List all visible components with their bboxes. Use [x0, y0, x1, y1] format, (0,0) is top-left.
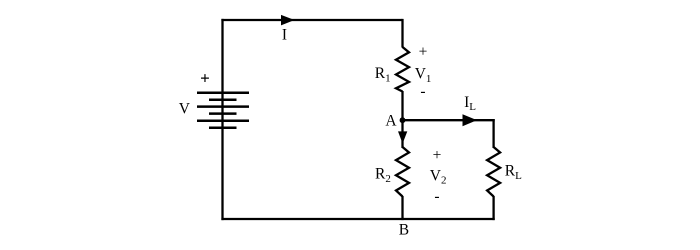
svg-text:-: - [420, 83, 425, 100]
wire: from R2 bottom down to node B on bottom wire [401, 196, 403, 220]
arrow: load current IL on horizontal wire [463, 114, 478, 126]
resistor R2 (zigzag) [396, 147, 409, 197]
wire: R1 branch vertical from top wire down to R1 [401, 19, 403, 48]
wire: bottom horizontal return from B to battery - terminal and RL bottom [221, 218, 494, 220]
wire: horizontal from node A to RL branch [403, 119, 495, 121]
svg-text:R1: R1 [375, 65, 391, 84]
svg-text:+: + [200, 69, 210, 88]
wire: top horizontal from battery + terminal to R1 branch [221, 19, 402, 21]
svg-text:+: + [433, 147, 442, 164]
svg-text:RL: RL [505, 163, 522, 182]
node A (junction dot) [400, 117, 406, 123]
arrow: current into R2 (downward) below node A [398, 131, 407, 143]
svg-text:+: + [419, 44, 428, 61]
wire: from RL bottom down to bottom wire [492, 196, 494, 220]
wire: RL branch vertical from corner down to RL [492, 119, 494, 148]
wire: from R1 bottom down to node A [401, 91, 403, 121]
svg-text:IL: IL [464, 94, 476, 113]
wire: left vertical from top corner down through battery to bottom-left corner [221, 19, 223, 220]
wire: from node A down toward R2 [401, 120, 403, 148]
svg-text:-: - [434, 188, 439, 205]
svg-text:V2: V2 [430, 168, 447, 187]
arrow: current I on top wire [281, 15, 295, 26]
svg-text:A: A [385, 113, 397, 130]
svg-text:R2: R2 [375, 166, 391, 185]
resistor R1 (zigzag) [396, 47, 409, 92]
resistor RL (load, zigzag) [487, 147, 500, 197]
svg-text:V: V [179, 101, 191, 118]
svg-text:B: B [399, 222, 409, 239]
svg-text:I: I [282, 27, 287, 44]
battery V (multicell): plates [197, 93, 249, 128]
